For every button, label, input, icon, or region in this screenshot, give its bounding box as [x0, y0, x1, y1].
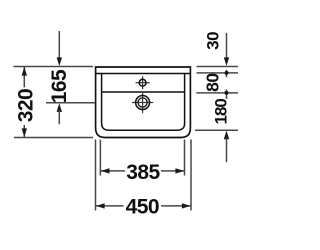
- dimension 30 leader: [226, 33, 228, 59]
- extension line right B (rim band bottom level): [197, 72, 239, 74]
- extension line right A (rim top level): [197, 66, 239, 68]
- svg-text:450: 450: [126, 195, 159, 218]
- extension line right D (inner bottom level): [195, 129, 238, 131]
- svg-text:30: 30: [204, 32, 223, 50]
- dimension 450 arrow right: [182, 203, 191, 208]
- dimension 180 lower leader: [226, 138, 228, 162]
- svg-text:80: 80: [203, 73, 223, 92]
- dimension 320 line lower segment: [23, 125, 25, 138]
- drain crosshair: [132, 102, 153, 104]
- extension line right C (bowl edge level): [196, 92, 238, 94]
- dimension 450 line left segment: [96, 205, 124, 207]
- dimension 385 arrow right: [175, 168, 184, 173]
- svg-text:165: 165: [48, 69, 71, 103]
- extension line top-left (basin top level): [13, 66, 93, 68]
- dimension 385 arrow left: [101, 168, 110, 173]
- dimension 165 lower leader: [58, 111, 60, 125]
- dimension 385 line left segment: [100, 170, 125, 172]
- basin bowl edge line: [102, 91, 185, 93]
- dimension 320 line upper segment: [23, 67, 25, 88]
- dimension 165 upper leader: [58, 31, 60, 60]
- extension line bottom-left (basin bottom level): [14, 137, 93, 139]
- dimension 180 arrow up: [224, 131, 229, 140]
- dimension dot at C: [226, 90, 228, 100]
- dimension 320 arrow down: [22, 128, 27, 137]
- extension line 385 left: [99, 140, 101, 176]
- drain outer circle: [136, 96, 150, 110]
- basin inner wall: [102, 74, 185, 131]
- drain inner circle: [138, 98, 147, 107]
- faucet hole: [139, 79, 146, 86]
- extension line 450 right: [190, 140, 192, 211]
- extension line 450 left: [95, 140, 97, 211]
- svg-text:385: 385: [126, 161, 160, 184]
- svg-text:180: 180: [212, 99, 231, 125]
- dimension dot at B: [226, 70, 228, 77]
- dimension 450 arrow left: [96, 203, 105, 208]
- dimension 320 arrow up: [22, 67, 27, 76]
- dimension 30 arrow down: [224, 57, 229, 66]
- washbasin outer outline: [96, 67, 191, 138]
- extension line 165 (drain center level): [46, 102, 95, 104]
- dimension 385 line right segment: [161, 170, 185, 172]
- svg-text:320: 320: [14, 89, 37, 122]
- rim band bottom line: [96, 73, 191, 75]
- dimension 165 arrow down: [57, 57, 62, 66]
- dimension 165 arrow up: [57, 103, 62, 112]
- extension line 385 right: [184, 140, 186, 176]
- faucet hole crosshair: [136, 82, 150, 84]
- dimension 450 line right segment: [161, 205, 191, 207]
